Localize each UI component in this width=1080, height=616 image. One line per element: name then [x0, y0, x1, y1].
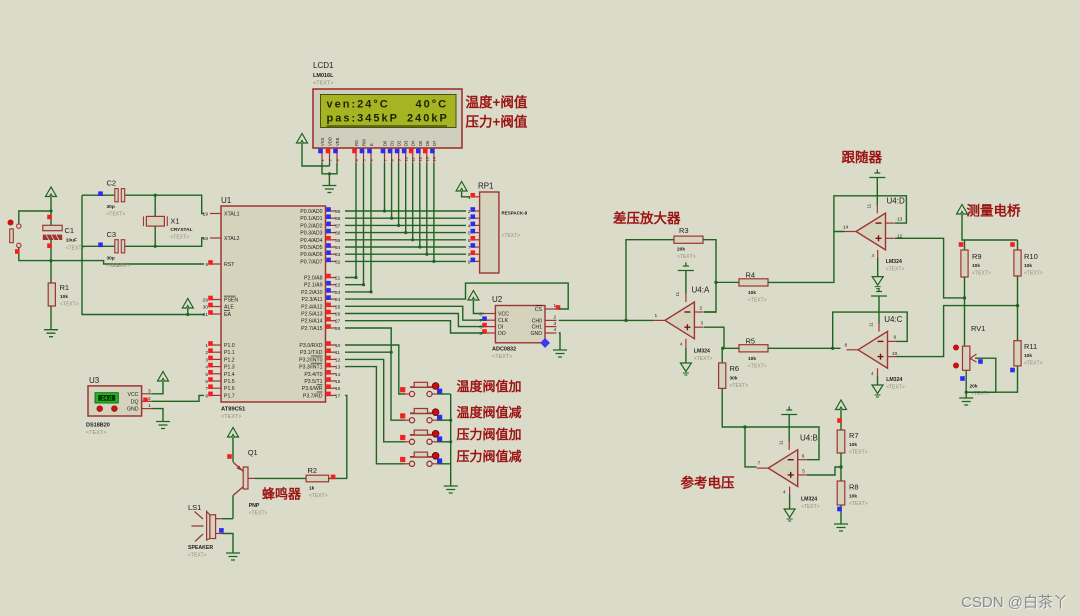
svg-text:9: 9 — [894, 335, 897, 341]
svg-text:C1: C1 — [65, 226, 75, 235]
svg-text:VEE: VEE — [335, 137, 340, 146]
svg-text:240kP: 240kP — [407, 113, 449, 125]
svg-text:C3: C3 — [107, 230, 117, 239]
svg-text:VDD: VDD — [328, 137, 333, 146]
svg-text:D6: D6 — [425, 140, 430, 146]
svg-text:P2.4/A12: P2.4/A12 — [301, 304, 322, 310]
svg-text:35: 35 — [335, 238, 341, 244]
svg-text:ven:24°C: ven:24°C — [327, 99, 390, 111]
svg-text:P2.0/A8: P2.0/A8 — [304, 276, 323, 282]
svg-text:XTAL1: XTAL1 — [224, 212, 240, 218]
svg-text:P1.4: P1.4 — [224, 372, 235, 378]
svg-text:12: 12 — [335, 357, 341, 363]
svg-text:32: 32 — [335, 259, 341, 265]
svg-text:<TEXT>: <TEXT> — [1024, 271, 1043, 277]
svg-text:R2: R2 — [308, 466, 318, 475]
svg-text:3: 3 — [701, 321, 704, 327]
svg-text:P2.5/A13: P2.5/A13 — [301, 312, 322, 318]
svg-text:CLK: CLK — [498, 318, 509, 324]
svg-text:11: 11 — [869, 322, 874, 327]
svg-text:8: 8 — [468, 252, 471, 258]
svg-text:VCC: VCC — [498, 312, 509, 318]
svg-text:20k: 20k — [970, 384, 978, 390]
svg-text:R5: R5 — [746, 337, 756, 346]
svg-text:测量电桥: 测量电桥 — [967, 203, 1021, 219]
svg-text:13: 13 — [425, 156, 430, 161]
svg-text:GND: GND — [530, 331, 542, 337]
svg-text:D5: D5 — [418, 140, 423, 146]
svg-text:P3.7/RD: P3.7/RD — [303, 393, 323, 399]
svg-text:<TEXT>: <TEXT> — [170, 235, 189, 241]
svg-text:19: 19 — [203, 212, 209, 218]
svg-text:<TEXT>: <TEXT> — [502, 233, 521, 239]
svg-text:6: 6 — [205, 379, 208, 385]
svg-text:P3.2/INT0: P3.2/INT0 — [299, 357, 322, 363]
svg-text:<TEXT>: <TEXT> — [849, 450, 868, 456]
svg-text:SPEAKER: SPEAKER — [188, 545, 213, 551]
svg-text:14: 14 — [843, 225, 849, 231]
svg-text:31: 31 — [203, 312, 209, 318]
svg-text:P3.6/WR: P3.6/WR — [302, 386, 323, 392]
svg-text:D0: D0 — [383, 140, 388, 146]
svg-text:24: 24 — [335, 297, 341, 303]
svg-text:21: 21 — [335, 276, 341, 282]
svg-text:<TEXT>: <TEXT> — [972, 271, 991, 277]
svg-text:10k: 10k — [849, 442, 857, 448]
svg-text:14: 14 — [335, 372, 341, 378]
svg-text:5: 5 — [468, 231, 471, 237]
svg-text:R7: R7 — [849, 431, 859, 440]
svg-text:P2.1/A9: P2.1/A9 — [304, 283, 323, 289]
svg-text:D4: D4 — [411, 140, 416, 146]
svg-text:D3: D3 — [404, 140, 409, 146]
svg-text:8: 8 — [205, 393, 208, 399]
svg-text:ALE: ALE — [224, 305, 234, 311]
svg-text:P3.1/TXD: P3.1/TXD — [300, 350, 323, 356]
svg-text:P0.6/AD6: P0.6/AD6 — [300, 252, 322, 258]
svg-text:R3: R3 — [679, 226, 689, 235]
svg-text:8: 8 — [845, 343, 848, 349]
svg-text:R9: R9 — [972, 252, 982, 261]
svg-text:DI: DI — [498, 325, 503, 331]
svg-text:10k: 10k — [1024, 263, 1032, 269]
svg-text:LM324: LM324 — [801, 497, 817, 503]
svg-text:11: 11 — [779, 440, 784, 445]
svg-text:7: 7 — [468, 245, 471, 251]
svg-text:CH1: CH1 — [532, 325, 542, 331]
svg-text:30k: 30k — [730, 376, 738, 382]
svg-text:2: 2 — [700, 306, 703, 312]
svg-text:温度阀值加: 温度阀值加 — [457, 379, 522, 394]
svg-text:13: 13 — [335, 365, 341, 371]
svg-text:RP1: RP1 — [478, 182, 494, 191]
svg-text:X1: X1 — [170, 217, 179, 226]
svg-text:U4:C: U4:C — [884, 315, 902, 324]
svg-text:P3.5/T1: P3.5/T1 — [304, 379, 322, 385]
svg-text:U4:D: U4:D — [887, 197, 905, 206]
svg-text:CRYSTAL: CRYSTAL — [170, 227, 192, 233]
svg-text:R4: R4 — [746, 271, 756, 280]
svg-text:28: 28 — [335, 326, 341, 332]
svg-text:22: 22 — [335, 283, 341, 289]
svg-text:Q1: Q1 — [248, 448, 258, 457]
svg-text:压力+阀值: 压力+阀值 — [466, 114, 528, 130]
svg-text:CH0: CH0 — [532, 318, 542, 324]
svg-text:P1.3: P1.3 — [224, 365, 235, 371]
svg-text:EA: EA — [224, 312, 231, 318]
svg-text:P2.6/A14: P2.6/A14 — [301, 319, 322, 325]
svg-text:10: 10 — [335, 343, 341, 349]
svg-text:U4:A: U4:A — [692, 286, 710, 295]
svg-text:11: 11 — [335, 350, 340, 356]
svg-text:17: 17 — [335, 393, 341, 399]
svg-text:37: 37 — [335, 223, 341, 229]
svg-text:10: 10 — [404, 156, 409, 161]
svg-text:VCC: VCC — [128, 392, 139, 398]
svg-text:34: 34 — [335, 245, 341, 251]
svg-text:P0.2/AD2: P0.2/AD2 — [300, 223, 322, 229]
svg-text:2: 2 — [554, 315, 557, 321]
svg-text:E: E — [369, 143, 374, 146]
svg-text:6: 6 — [468, 238, 471, 244]
svg-text:U1: U1 — [221, 196, 232, 205]
svg-text:7: 7 — [205, 386, 208, 392]
svg-text:10k: 10k — [972, 263, 980, 269]
svg-text:<TEXT>: <TEXT> — [748, 298, 767, 304]
svg-text:33: 33 — [335, 252, 341, 258]
svg-text:7: 7 — [758, 461, 761, 467]
svg-text:跟随器: 跟随器 — [842, 149, 883, 165]
svg-text:1: 1 — [655, 313, 658, 319]
svg-text:RST: RST — [224, 262, 235, 268]
svg-text:R10: R10 — [1024, 252, 1038, 261]
svg-text:24.0: 24.0 — [101, 396, 112, 402]
svg-text:1: 1 — [468, 195, 471, 201]
svg-text:<TEXT>: <TEXT> — [1024, 361, 1043, 367]
svg-text:P1.7: P1.7 — [224, 393, 235, 399]
svg-text:LS1: LS1 — [188, 503, 201, 512]
svg-text:25: 25 — [335, 304, 341, 310]
svg-text:11: 11 — [675, 291, 680, 296]
svg-text:8: 8 — [479, 312, 482, 318]
svg-text:温度+阀值: 温度+阀值 — [466, 94, 528, 110]
svg-text:P2.2/A10: P2.2/A10 — [301, 290, 322, 296]
svg-text:压力阀值减: 压力阀值减 — [457, 449, 522, 464]
svg-text:pas:345kP: pas:345kP — [327, 113, 399, 125]
svg-text:10k: 10k — [748, 356, 756, 362]
svg-text:<TEXT>: <TEXT> — [886, 267, 905, 273]
svg-text:<TEXT>: <TEXT> — [86, 430, 106, 436]
svg-text:7: 7 — [479, 318, 482, 324]
svg-text:14: 14 — [432, 156, 437, 161]
svg-text:CS: CS — [535, 307, 543, 313]
svg-text:DQ: DQ — [131, 399, 139, 405]
svg-text:1: 1 — [554, 303, 557, 309]
svg-text:ADC0832: ADC0832 — [492, 347, 516, 353]
svg-text:U4:B: U4:B — [800, 434, 818, 443]
svg-text:5: 5 — [479, 331, 482, 337]
svg-text:P1.1: P1.1 — [224, 350, 235, 356]
svg-text:DS18B20: DS18B20 — [86, 423, 110, 429]
svg-text:压力阀值加: 压力阀值加 — [457, 427, 522, 442]
svg-text:3: 3 — [468, 216, 471, 222]
svg-text:30p: 30p — [107, 255, 115, 261]
svg-text:P3.3/INT1: P3.3/INT1 — [299, 365, 322, 371]
svg-text:P0.1/AD1: P0.1/AD1 — [300, 216, 322, 222]
svg-text:4: 4 — [205, 365, 208, 371]
svg-text:<TEXT>: <TEXT> — [107, 212, 126, 218]
svg-text:3: 3 — [148, 388, 151, 394]
svg-text:<TEXT>: <TEXT> — [60, 302, 79, 308]
svg-text:P2.3/A11: P2.3/A11 — [302, 297, 323, 303]
svg-text:R8: R8 — [849, 483, 859, 492]
svg-text:12: 12 — [418, 156, 423, 161]
svg-text:4: 4 — [554, 327, 557, 333]
svg-text:PSEN: PSEN — [224, 298, 238, 304]
svg-text:<TEXT>: <TEXT> — [221, 414, 241, 420]
svg-text:15: 15 — [335, 379, 341, 385]
svg-text:<TEXT>: <TEXT> — [801, 504, 820, 510]
svg-text:9: 9 — [468, 259, 471, 265]
svg-text:18: 18 — [203, 236, 209, 242]
svg-text:10k: 10k — [849, 494, 857, 500]
svg-text:38: 38 — [335, 216, 341, 222]
svg-text:20k: 20k — [677, 247, 685, 253]
svg-text:D7: D7 — [432, 140, 437, 146]
svg-text:差压放大器: 差压放大器 — [613, 210, 681, 226]
svg-text:<TEXT>: <TEXT> — [849, 501, 868, 507]
svg-text:R11: R11 — [1024, 342, 1037, 351]
svg-text:30: 30 — [203, 305, 209, 311]
svg-text:30p: 30p — [107, 204, 115, 210]
svg-text:6: 6 — [802, 454, 805, 460]
svg-text:<TEXT>: <TEXT> — [748, 364, 767, 370]
svg-text:LM324: LM324 — [694, 349, 710, 355]
svg-text:16: 16 — [335, 386, 341, 392]
svg-text:11: 11 — [867, 203, 872, 208]
svg-text:36: 36 — [335, 231, 341, 237]
svg-text:RV1: RV1 — [971, 324, 985, 333]
svg-text:P0.4/AD4: P0.4/AD4 — [300, 238, 322, 244]
svg-text:2: 2 — [468, 209, 471, 215]
svg-text:XTAL2: XTAL2 — [224, 236, 240, 242]
svg-text:<TEXT>: <TEXT> — [313, 81, 333, 87]
svg-text:39: 39 — [335, 209, 341, 215]
svg-text:26: 26 — [335, 312, 341, 318]
svg-text:10uF: 10uF — [66, 238, 77, 244]
svg-text:P3.4/T0: P3.4/T0 — [304, 372, 322, 378]
svg-text:P0.3/AD3: P0.3/AD3 — [300, 231, 322, 237]
svg-text:P2.7/A15: P2.7/A15 — [301, 326, 322, 332]
svg-text:<TEXT>: <TEXT> — [249, 511, 268, 517]
svg-text:<TEXT>: <TEXT> — [107, 263, 126, 269]
svg-text:40°C: 40°C — [416, 99, 449, 111]
svg-text:<TEXT>: <TEXT> — [694, 356, 713, 362]
svg-text:P3.0/RXD: P3.0/RXD — [299, 343, 322, 349]
svg-text:3: 3 — [554, 321, 557, 327]
svg-text:23: 23 — [335, 290, 341, 296]
svg-text:PNP: PNP — [249, 503, 260, 509]
svg-text:R1: R1 — [60, 283, 70, 292]
svg-text:RS: RS — [354, 140, 359, 146]
svg-text:5: 5 — [205, 372, 208, 378]
svg-text:10k: 10k — [60, 294, 68, 300]
svg-text:<TEXT>: <TEXT> — [677, 254, 696, 260]
svg-text:2: 2 — [205, 350, 208, 356]
svg-text:P0.0/AD0: P0.0/AD0 — [300, 209, 322, 215]
svg-text:<TEXT>: <TEXT> — [730, 383, 749, 389]
svg-text:DO: DO — [498, 331, 506, 337]
svg-text:2: 2 — [148, 396, 151, 402]
svg-text:5: 5 — [802, 469, 805, 475]
svg-text:<TEXT>: <TEXT> — [188, 553, 207, 559]
svg-text:参考电压: 参考电压 — [681, 475, 735, 491]
svg-text:蜂鸣器: 蜂鸣器 — [262, 487, 302, 502]
svg-text:P0.5/AD5: P0.5/AD5 — [300, 245, 322, 251]
svg-text:29: 29 — [203, 298, 209, 304]
svg-text:<TEXT>: <TEXT> — [886, 384, 905, 390]
svg-text:1k: 1k — [309, 486, 315, 492]
svg-text:P1.2: P1.2 — [224, 357, 235, 363]
svg-text:AT89C51: AT89C51 — [221, 407, 246, 413]
svg-text:U3: U3 — [89, 376, 100, 385]
svg-text:CSDN @白茶丫: CSDN @白茶丫 — [961, 594, 1068, 611]
svg-text:P1.6: P1.6 — [224, 386, 235, 392]
svg-text:9: 9 — [205, 262, 208, 268]
svg-text:<TEXT>: <TEXT> — [309, 493, 328, 499]
svg-text:LCD1: LCD1 — [313, 61, 334, 70]
svg-text:温度阀值减: 温度阀值减 — [457, 405, 522, 420]
svg-text:U2: U2 — [492, 295, 503, 304]
svg-text:VSS: VSS — [320, 137, 325, 146]
svg-text:R6: R6 — [730, 364, 740, 373]
svg-text:10k: 10k — [1024, 353, 1032, 359]
svg-text:GND: GND — [127, 407, 139, 413]
svg-text:D1: D1 — [390, 140, 395, 146]
svg-text:RESPACK-8: RESPACK-8 — [502, 211, 528, 216]
svg-text:3: 3 — [205, 357, 208, 363]
svg-text:RW: RW — [362, 139, 367, 146]
svg-text:27: 27 — [335, 319, 341, 325]
svg-text:C2: C2 — [107, 179, 117, 188]
svg-text:1: 1 — [148, 403, 151, 409]
svg-text:4: 4 — [468, 223, 471, 229]
svg-text:D2: D2 — [397, 140, 402, 146]
svg-text:LM016L: LM016L — [313, 73, 334, 79]
svg-text:LM324: LM324 — [886, 377, 902, 383]
svg-text:6: 6 — [479, 325, 482, 331]
svg-text:P0.7/AD7: P0.7/AD7 — [300, 259, 322, 265]
svg-text:13: 13 — [897, 217, 903, 223]
svg-text:P1.5: P1.5 — [224, 379, 235, 385]
svg-text:<TEXT>: <TEXT> — [492, 354, 512, 360]
svg-text:10k: 10k — [748, 290, 756, 296]
svg-text:LM324: LM324 — [886, 259, 902, 265]
svg-text:P1.0: P1.0 — [224, 343, 235, 349]
svg-text:1: 1 — [205, 343, 208, 349]
